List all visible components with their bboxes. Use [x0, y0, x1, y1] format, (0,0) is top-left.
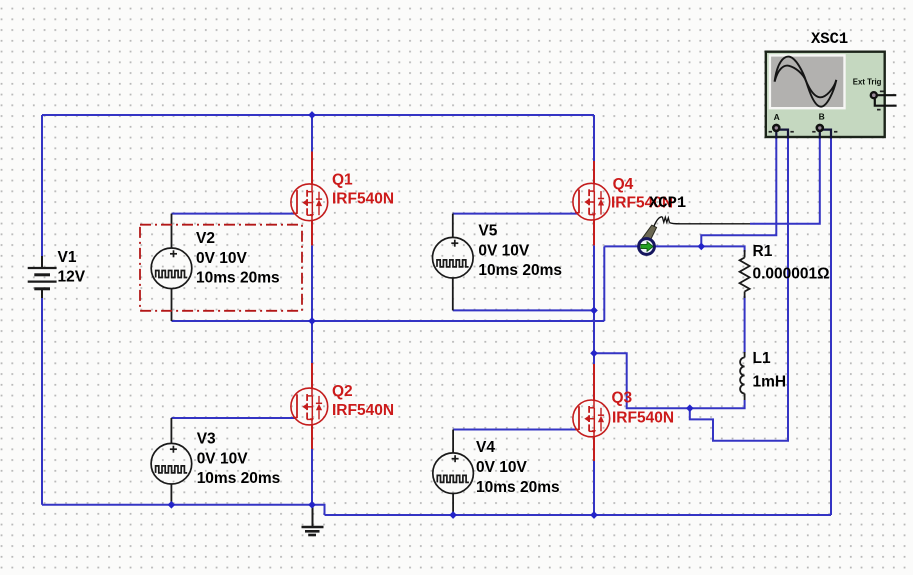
svg-text:V2: V2	[196, 230, 215, 247]
wire Q2 source red lead	[311, 425, 313, 449]
svg-text:XSC1: XSC1	[811, 30, 848, 48]
wire V1 top	[41, 115, 43, 256]
source V4	[433, 430, 560, 516]
junction ground node	[308, 501, 316, 509]
wire Q4 drain red lead	[593, 161, 595, 184]
wire mid rail riser	[603, 246, 605, 321]
wire mid rail V2-	[172, 320, 605, 322]
transistor Q4	[573, 176, 673, 220]
svg-text:Q3: Q3	[612, 390, 633, 407]
selection box around V2	[140, 225, 302, 311]
junction V4 bottom	[449, 511, 457, 519]
svg-text:V5: V5	[478, 223, 497, 240]
svg-text:V4: V4	[476, 439, 495, 456]
wire Q1 source to Q2 drain	[311, 245, 313, 363]
wire Q1 drain red lead	[311, 152, 313, 185]
wire bottom right rail	[325, 514, 832, 516]
inductor L1	[740, 350, 786, 400]
wire gate Q1	[172, 213, 296, 215]
resistor R1	[740, 243, 830, 298]
svg-text:12V: 12V	[58, 269, 86, 286]
wire scope B- drop	[830, 137, 832, 515]
svg-text:Q2: Q2	[332, 383, 353, 400]
wire load return	[594, 353, 745, 408]
junction top rail Q1	[308, 111, 316, 119]
svg-text:XCP1: XCP1	[649, 194, 686, 212]
wire scope A- loop	[690, 137, 788, 441]
wire Q2 drain red lead	[311, 363, 313, 389]
svg-text:V3: V3	[197, 431, 216, 448]
svg-text:B: B	[819, 112, 825, 122]
svg-text:L1: L1	[753, 350, 771, 367]
wire probe run to R1	[604, 246, 744, 252]
junction probe wire A tap	[697, 243, 705, 251]
wire Q1 source red lead	[311, 221, 313, 246]
wire scope A tap	[701, 137, 776, 246]
junction V3 bottom	[168, 501, 176, 509]
svg-text:Q1: Q1	[332, 172, 353, 189]
wire Q3 drain red lead	[593, 364, 595, 400]
svg-text:10ms 20ms: 10ms 20ms	[478, 262, 562, 279]
wire Q4 drain drop	[593, 115, 595, 161]
source V2	[151, 214, 279, 321]
wire R1 to L1	[744, 296, 746, 353]
svg-text:10ms 20ms: 10ms 20ms	[476, 479, 560, 496]
svg-text:A: A	[774, 112, 780, 122]
svg-text:V1: V1	[58, 249, 77, 266]
wire Q4 source red lead	[593, 220, 595, 245]
svg-text:0V 10V: 0V 10V	[196, 250, 248, 267]
wire gate Q4	[453, 213, 578, 215]
battery V1	[28, 249, 86, 298]
wire Q2 source drop	[311, 449, 313, 505]
svg-text:0V 10V: 0V 10V	[476, 459, 528, 476]
wire V5 minus	[453, 309, 594, 311]
wire scope B to probe	[750, 137, 820, 224]
wire Q3 source red lead	[593, 437, 595, 461]
wire Q1 drain drop	[311, 115, 313, 152]
junction load return A tap	[686, 404, 694, 412]
svg-text:IRF540N: IRF540N	[332, 402, 394, 419]
wire gate Q2	[171, 417, 295, 419]
source V5	[433, 214, 562, 311]
junction V5 minus	[590, 307, 598, 315]
wire gate Q3	[453, 429, 577, 431]
svg-text:1mH: 1mH	[753, 374, 787, 391]
wire Q3 source drop	[593, 461, 595, 515]
svg-text:Q4: Q4	[613, 176, 634, 193]
junction Q3 source	[590, 511, 598, 519]
junction mid rail Q1 source	[308, 317, 316, 325]
current probe XCP1	[639, 194, 750, 254]
wire top rail	[42, 114, 594, 116]
junction load return	[590, 349, 598, 357]
transistor Q2	[291, 383, 394, 425]
transistor Q3	[573, 390, 674, 437]
svg-text:0V 10V: 0V 10V	[478, 242, 530, 259]
wire Q4 source to Q3 drain	[593, 245, 595, 364]
svg-text:Ext Trig: Ext Trig	[853, 78, 882, 87]
svg-text:10ms 20ms: 10ms 20ms	[196, 270, 280, 287]
svg-text:0V 10V: 0V 10V	[197, 450, 249, 467]
svg-text:10ms 20ms: 10ms 20ms	[197, 470, 281, 487]
transistor Q1	[291, 172, 394, 221]
wire bottom left rail	[42, 505, 325, 515]
svg-text:R1: R1	[753, 243, 773, 260]
source V3	[151, 418, 280, 505]
wire V1 bottom	[41, 298, 43, 505]
oscilloscope XSC1	[766, 30, 897, 139]
svg-text:IRF540N: IRF540N	[332, 191, 394, 208]
ground	[302, 505, 324, 535]
svg-text:0.000001Ω: 0.000001Ω	[753, 266, 830, 283]
svg-text:IRF540N: IRF540N	[612, 410, 674, 427]
